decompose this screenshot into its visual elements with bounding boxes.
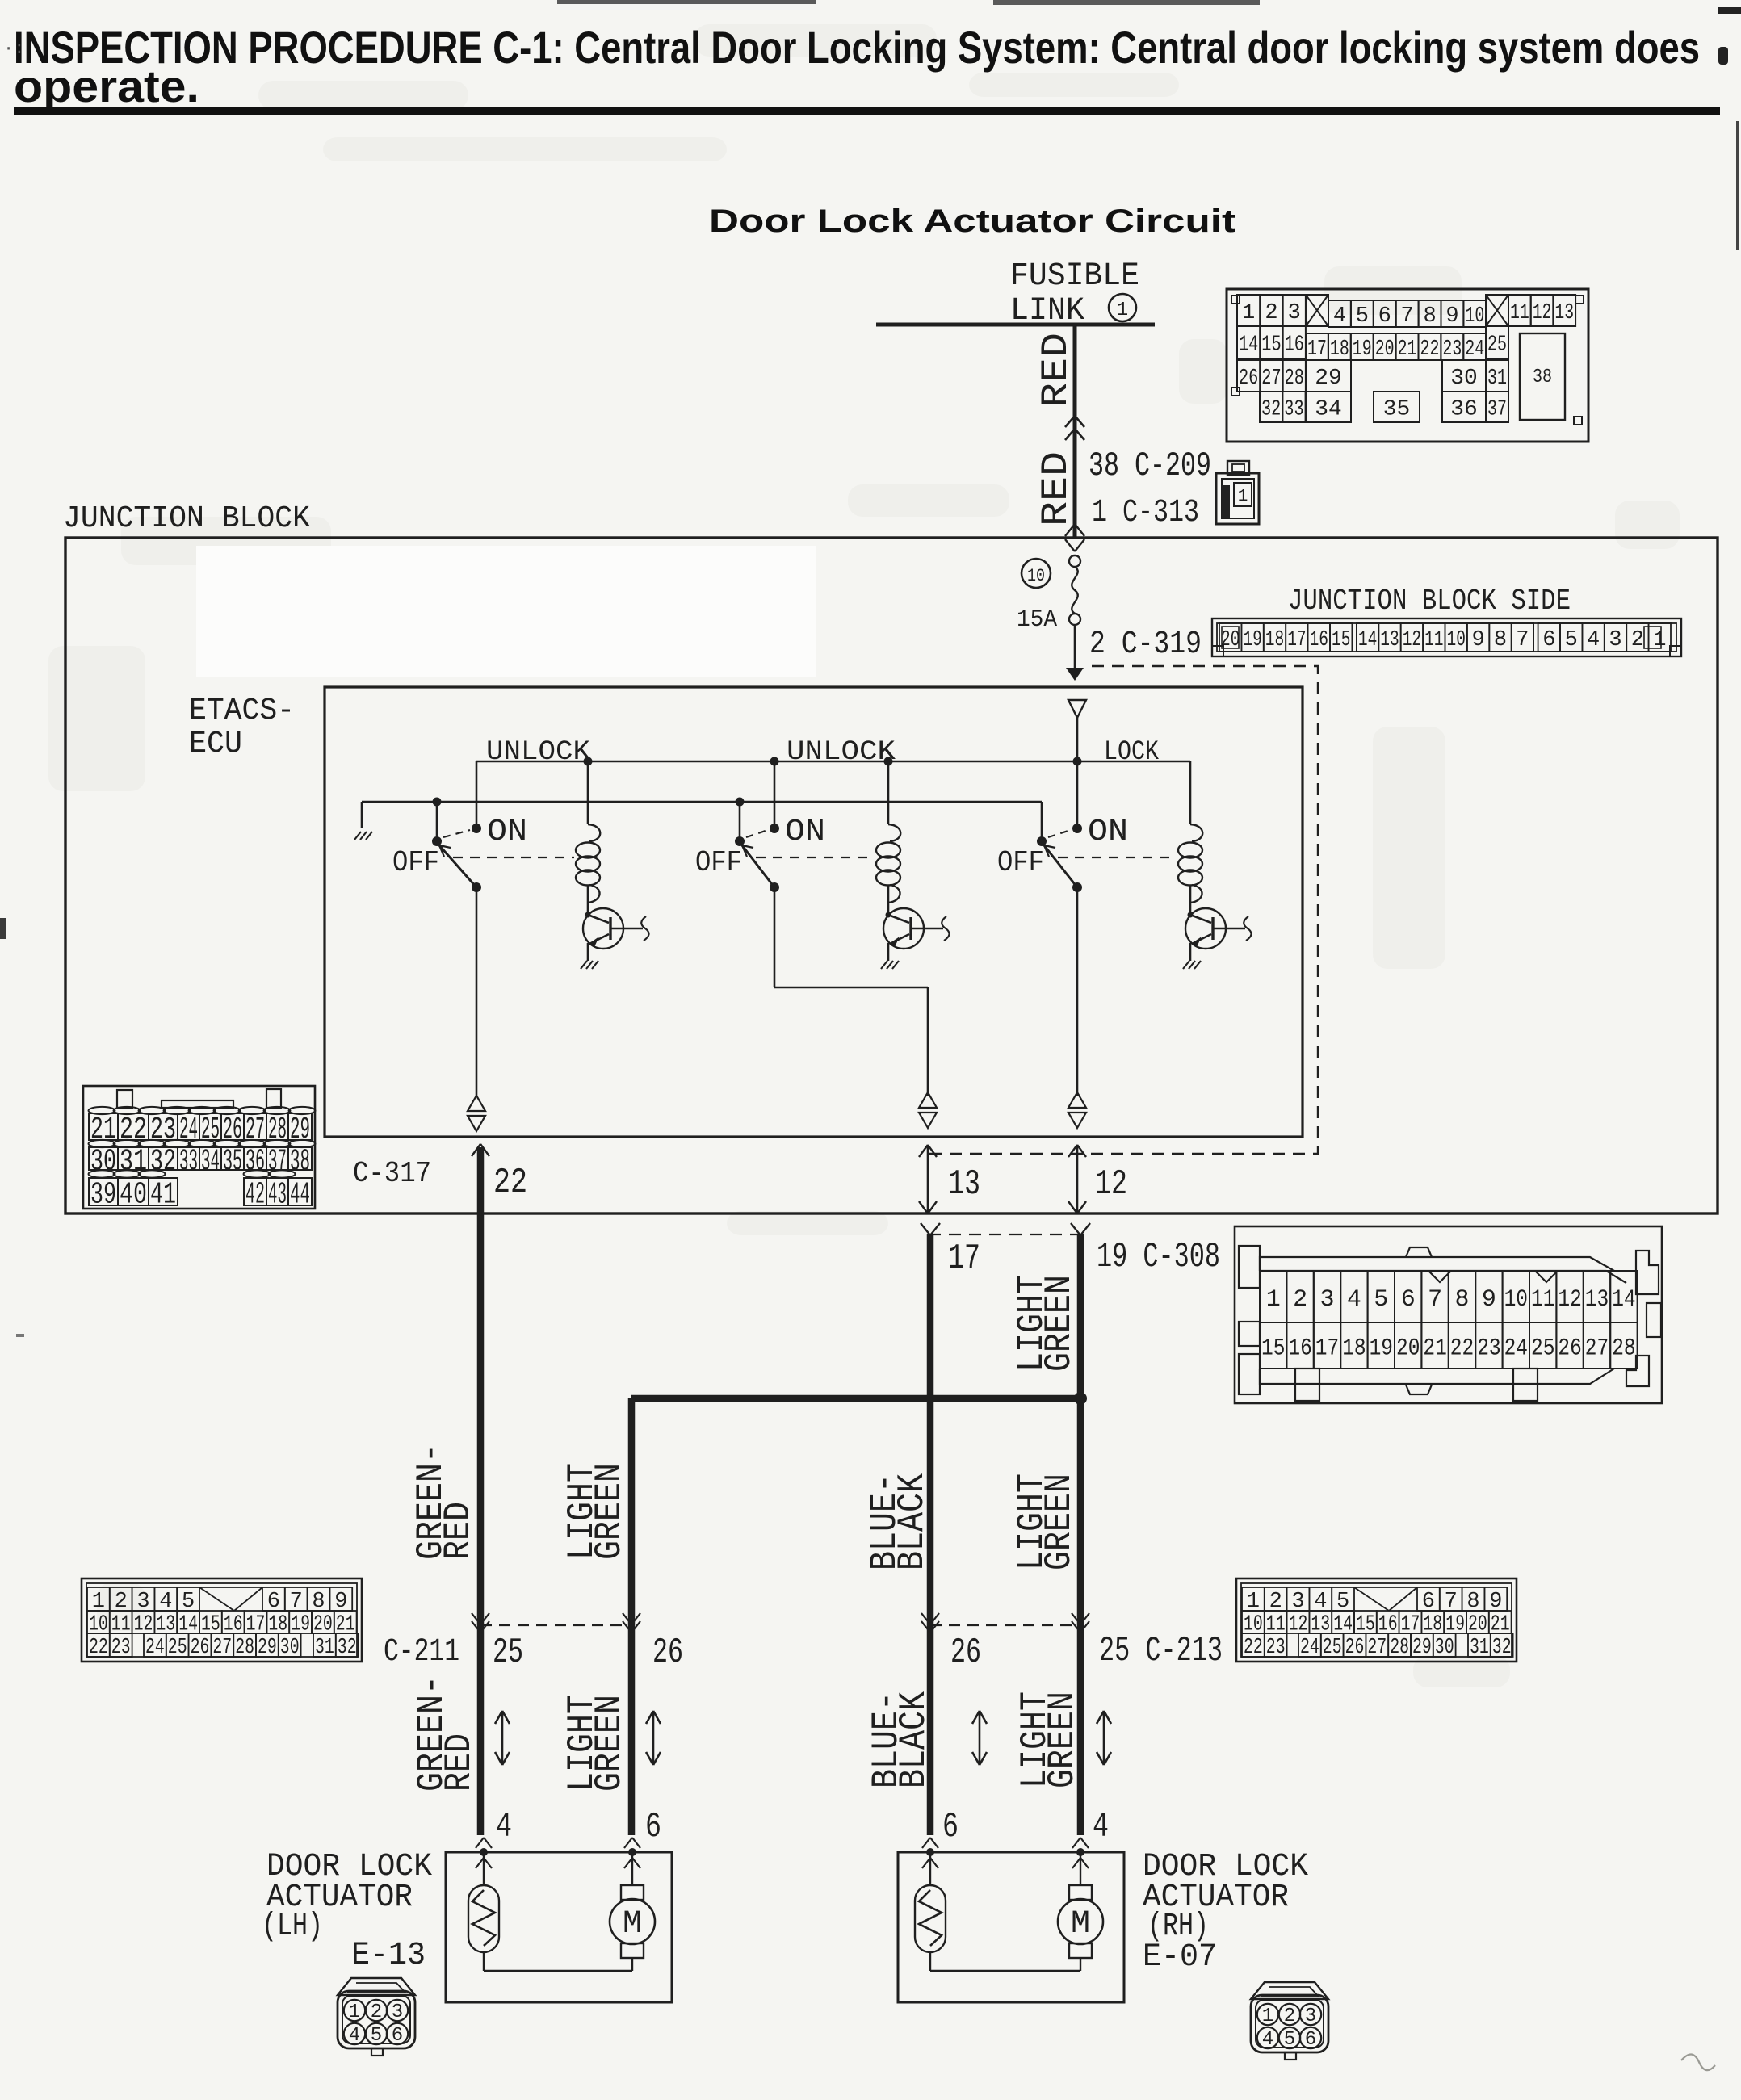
svg-text:36: 36 [1450,398,1477,422]
svg-text:31: 31 [1487,367,1507,391]
svg-text:31: 31 [315,1636,334,1660]
svg-text:6: 6 [1305,2029,1316,2051]
svg-text:27: 27 [1585,1335,1609,1362]
svg-text:7: 7 [1516,628,1529,652]
svg-text:FUSIBLE: FUSIBLE [1010,258,1139,295]
svg-text:34: 34 [201,1145,220,1180]
svg-text:14: 14 [1239,333,1258,358]
svg-text:26: 26 [1558,1335,1581,1362]
svg-text:22: 22 [89,1636,108,1660]
svg-text:8: 8 [1454,1286,1469,1314]
svg-text:1: 1 [1242,301,1255,325]
svg-text:1: 1 [1266,1286,1281,1314]
svg-text:10: 10 [1027,566,1045,586]
svg-text:29: 29 [258,1636,277,1660]
svg-text:8: 8 [1423,304,1436,329]
svg-text:23: 23 [1442,337,1462,362]
svg-text:6: 6 [1542,628,1555,652]
svg-text:·:: ·: [3,39,24,59]
svg-text:16: 16 [1310,628,1328,652]
svg-text:5: 5 [1374,1286,1388,1314]
svg-text:JUNCTION BLOCK: JUNCTION BLOCK [63,501,310,536]
svg-text:2: 2 [1284,2006,1295,2027]
svg-text:12: 12 [1095,1164,1127,1205]
svg-text:40: 40 [120,1178,147,1213]
svg-text:26: 26 [1345,1636,1365,1660]
svg-text:31: 31 [120,1145,147,1180]
svg-text:21: 21 [1398,337,1417,362]
svg-text:3: 3 [1609,628,1621,652]
svg-text:43: 43 [268,1178,287,1213]
svg-text:E-13: E-13 [351,1938,426,1974]
svg-text:19: 19 [1243,628,1261,652]
svg-text:3: 3 [392,2001,403,2023]
svg-text:44: 44 [290,1178,310,1213]
svg-text:41: 41 [150,1178,176,1213]
svg-text:RED: RED [1035,451,1077,526]
svg-text:2: 2 [1631,628,1644,652]
svg-text:22: 22 [1450,1335,1474,1362]
svg-text:17: 17 [1307,337,1327,362]
svg-text:14: 14 [1358,628,1377,652]
svg-text:28: 28 [1390,1636,1409,1660]
svg-text:29: 29 [1412,1636,1432,1660]
svg-text:25: 25 [493,1633,523,1673]
svg-text:6: 6 [645,1807,661,1847]
svg-text:11: 11 [1531,1286,1554,1314]
svg-text:27: 27 [212,1636,232,1660]
svg-text:32: 32 [1261,398,1281,422]
svg-text:3: 3 [1319,1286,1334,1314]
svg-text:10: 10 [1447,628,1466,652]
svg-text:12: 12 [1403,628,1421,652]
svg-text:15: 15 [1332,628,1350,652]
svg-text:28: 28 [268,1113,287,1147]
svg-text:25 C-213: 25 C-213 [1099,1631,1223,1671]
svg-text:32: 32 [1492,1636,1512,1660]
svg-text:5: 5 [1284,2029,1295,2051]
svg-text:23: 23 [1266,1636,1286,1660]
svg-text:18: 18 [1330,337,1349,362]
svg-text:13: 13 [1380,628,1399,652]
svg-text:15: 15 [1261,333,1281,358]
svg-text:38 C-209: 38 C-209 [1089,446,1211,485]
svg-text:16: 16 [1285,333,1304,358]
svg-text:6: 6 [392,2025,403,2047]
svg-text:6: 6 [1378,304,1391,329]
svg-text:9: 9 [1482,1286,1496,1314]
svg-text:2: 2 [1293,1286,1307,1314]
svg-text:OFF: OFF [695,846,742,879]
svg-text:35: 35 [1383,398,1410,422]
svg-text:33: 33 [1284,398,1303,422]
svg-text:12: 12 [1558,1286,1581,1314]
svg-text:31: 31 [1470,1636,1489,1660]
svg-text:30: 30 [90,1145,116,1180]
svg-text:BLACK: BLACK [893,1691,935,1788]
svg-text:23: 23 [1477,1335,1500,1362]
svg-text:RED: RED [438,1502,480,1560]
svg-text:INSPECTION PROCEDURE C-1: Cent: INSPECTION PROCEDURE C-1: Central Door L… [14,22,1700,73]
svg-text:1 C-313: 1 C-313 [1092,495,1199,531]
svg-text:10: 10 [1465,304,1484,329]
svg-text:4: 4 [1262,2029,1273,2051]
svg-text:18: 18 [1342,1335,1366,1362]
svg-text:36: 36 [245,1145,265,1180]
svg-text:15: 15 [1261,1335,1285,1362]
svg-text:22: 22 [120,1113,147,1147]
svg-text:32: 32 [150,1145,176,1180]
svg-text:22: 22 [1420,337,1440,362]
svg-text:UNLOCK: UNLOCK [787,737,896,768]
svg-text:E-07: E-07 [1143,1939,1217,1976]
svg-text:4: 4 [1587,628,1600,652]
svg-text:operate.: operate. [14,61,199,111]
svg-text:25: 25 [1487,333,1507,358]
svg-text:21: 21 [1423,1335,1446,1362]
svg-text:22: 22 [1244,1636,1263,1660]
svg-text:4: 4 [496,1807,512,1847]
svg-text:25: 25 [1323,1636,1342,1660]
svg-text:8: 8 [1494,628,1507,652]
svg-text:OFF: OFF [392,846,439,879]
svg-text:20: 20 [1375,337,1395,362]
svg-text:30: 30 [1435,1636,1454,1660]
svg-text:21: 21 [90,1113,116,1147]
svg-text:25: 25 [201,1113,220,1147]
svg-text:BLACK: BLACK [891,1473,933,1570]
svg-text:6: 6 [942,1807,959,1847]
svg-text:39: 39 [90,1178,116,1213]
svg-text:28: 28 [1612,1335,1635,1362]
svg-text:17: 17 [948,1239,980,1279]
svg-text:GREEN: GREEN [1042,1691,1084,1788]
svg-text:13: 13 [1585,1286,1609,1314]
svg-text:24: 24 [145,1636,165,1660]
svg-text:RED: RED [1035,333,1077,408]
svg-text:ON: ON [487,815,527,849]
svg-text:24: 24 [1465,337,1484,362]
svg-text:GREEN: GREEN [589,1695,631,1792]
svg-text:ETACS-: ETACS- [189,694,295,728]
svg-text:23: 23 [111,1636,131,1660]
svg-text:26: 26 [1239,367,1258,391]
svg-text:25: 25 [1531,1335,1554,1362]
svg-text:24: 24 [1300,1636,1319,1660]
svg-text:18: 18 [1265,628,1284,652]
svg-text:5: 5 [1356,304,1369,329]
svg-text:M: M [623,1906,642,1943]
svg-text:2: 2 [1265,301,1277,325]
svg-text:1: 1 [1117,300,1128,321]
svg-text:19: 19 [1370,1335,1393,1362]
svg-text:1: 1 [349,2001,360,2023]
svg-text:Door Lock Actuator Circuit: Door Lock Actuator Circuit [709,203,1235,239]
svg-text:27: 27 [1261,367,1281,391]
svg-text:1: 1 [1262,2006,1273,2027]
svg-text:7: 7 [1428,1286,1442,1314]
svg-text:5: 5 [371,2025,382,2047]
svg-text:38: 38 [290,1145,310,1180]
svg-text:OFF: OFF [997,846,1044,879]
svg-text:GREEN: GREEN [1038,1275,1080,1372]
svg-text:C-211: C-211 [384,1634,459,1670]
svg-text:3: 3 [1288,301,1301,325]
svg-text:10: 10 [1504,1286,1528,1314]
svg-text:4: 4 [1333,304,1346,329]
svg-text:23: 23 [150,1113,176,1147]
svg-text:2 C-319: 2 C-319 [1089,627,1202,663]
svg-text:7: 7 [1401,304,1414,329]
svg-text:6: 6 [1401,1286,1416,1314]
svg-text:RED: RED [438,1733,480,1792]
svg-text:ECU: ECU [189,727,242,761]
svg-text:12: 12 [1533,301,1552,325]
svg-text:37: 37 [1487,398,1507,422]
svg-text:4: 4 [1347,1286,1361,1314]
svg-text:28: 28 [1285,367,1304,391]
svg-text:26: 26 [191,1636,210,1660]
svg-text:ON: ON [785,815,825,849]
svg-text:16: 16 [1288,1335,1311,1362]
svg-text:32: 32 [338,1636,357,1660]
svg-text:26: 26 [223,1113,242,1147]
svg-text:33: 33 [179,1145,198,1180]
svg-text:26: 26 [652,1633,683,1673]
svg-text:17: 17 [1287,628,1306,652]
svg-text:9: 9 [1471,628,1484,652]
svg-text:14: 14 [1612,1286,1635,1314]
svg-text:LOCK: LOCK [1104,737,1159,768]
svg-text:4: 4 [349,2025,360,2047]
svg-text:13: 13 [948,1164,980,1205]
svg-text:19: 19 [1353,337,1372,362]
svg-text:(LH): (LH) [262,1909,323,1945]
svg-text:25: 25 [168,1636,187,1660]
svg-text:26: 26 [950,1633,981,1673]
svg-text:1: 1 [1238,488,1248,506]
svg-text:4: 4 [1093,1807,1109,1847]
svg-text:5: 5 [1565,628,1578,652]
svg-text:UNLOCK: UNLOCK [486,737,591,768]
svg-text:28: 28 [235,1636,254,1660]
svg-text:24: 24 [179,1113,198,1147]
svg-text:13: 13 [1554,301,1574,325]
svg-text:JUNCTION BLOCK SIDE: JUNCTION BLOCK SIDE [1288,585,1571,618]
svg-text:17: 17 [1315,1335,1339,1362]
svg-text:3: 3 [1305,2006,1316,2027]
svg-text:19 C-308: 19 C-308 [1097,1237,1220,1277]
svg-text:29: 29 [290,1113,310,1147]
svg-text:M: M [1071,1906,1090,1943]
svg-text:9: 9 [1445,304,1458,329]
svg-text:30: 30 [280,1636,300,1660]
svg-text:GREEN: GREEN [589,1463,631,1560]
svg-text:15A: 15A [1017,606,1057,634]
svg-text:11: 11 [1510,301,1529,325]
svg-text:27: 27 [245,1113,265,1147]
svg-text:C-317: C-317 [353,1157,431,1190]
svg-text:GREEN: GREEN [1038,1473,1080,1570]
svg-text:29: 29 [1315,367,1341,391]
svg-text:34: 34 [1315,398,1341,422]
svg-text:38: 38 [1533,367,1552,388]
svg-text:11: 11 [1424,628,1443,652]
svg-text:ON: ON [1088,815,1128,849]
svg-text:30: 30 [1450,367,1477,391]
svg-text:27: 27 [1367,1636,1387,1660]
svg-text:42: 42 [245,1178,265,1213]
svg-text:20: 20 [1396,1335,1420,1362]
svg-text:37: 37 [268,1145,287,1180]
svg-text:24: 24 [1504,1335,1528,1362]
svg-text:2: 2 [371,2001,382,2023]
svg-text:35: 35 [223,1145,242,1180]
svg-text:22: 22 [493,1163,527,1203]
